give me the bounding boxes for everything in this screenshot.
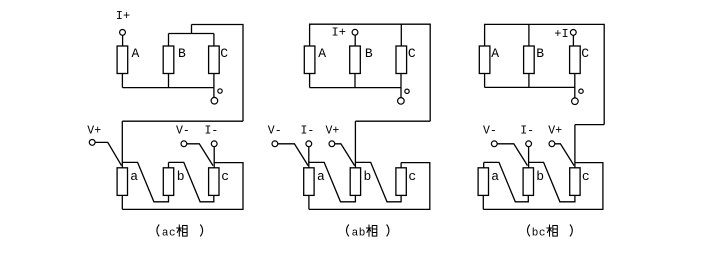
svg-text:a: a — [130, 169, 138, 184]
wire below C — [213, 74, 215, 98]
wire top bus to right drop — [192, 25, 244, 122]
terminal V- — [272, 141, 278, 147]
wire below A — [309, 74, 311, 88]
terminal small — [405, 89, 409, 93]
svg-text:I-: I- — [301, 125, 315, 138]
wire down to winding b — [354, 121, 356, 168]
caption paren — [347, 225, 349, 237]
wire below B — [354, 74, 356, 88]
caption paren — [157, 225, 159, 237]
svg-text:I+: I+ — [116, 9, 130, 23]
svg-text:V+: V+ — [326, 125, 340, 138]
terminal I+ — [352, 29, 358, 35]
wire zigzag b-c — [355, 162, 401, 201]
winding c1 — [209, 168, 219, 196]
wire B-C tie — [169, 33, 214, 35]
wire cross link — [575, 124, 604, 126]
winding c2 — [396, 168, 406, 196]
wire outer loop — [309, 163, 430, 210]
wire top bus — [310, 24, 431, 121]
svg-text:c: c — [408, 169, 416, 184]
wire a bottom stub — [482, 195, 484, 209]
svg-text:bc: bc — [532, 228, 546, 240]
winding a3 — [478, 168, 488, 196]
caption xiang — [176, 225, 187, 237]
caption xiang — [546, 225, 557, 237]
svg-text:a: a — [491, 169, 499, 184]
svg-text:c: c — [221, 169, 229, 184]
caption paren — [528, 225, 530, 237]
wire B top stub — [528, 24, 530, 46]
wire V+ lead — [555, 144, 574, 166]
terminal small — [579, 89, 583, 93]
wire C top stub — [400, 24, 402, 46]
wire I- lead — [308, 147, 310, 168]
svg-text:+I: +I — [554, 27, 568, 41]
wire below C — [574, 74, 576, 99]
svg-text:C: C — [408, 46, 416, 61]
terminal V+ — [89, 140, 95, 146]
wire zigzag a-b — [122, 162, 168, 201]
wire I+ to winding B — [354, 35, 356, 46]
svg-text:C: C — [581, 46, 589, 61]
terminal V- — [491, 141, 497, 147]
wire bottom tie — [485, 86, 575, 88]
svg-text:B: B — [365, 46, 373, 61]
winding A3 — [479, 46, 490, 74]
svg-text:V-: V- — [268, 125, 282, 138]
svg-text:ab: ab — [352, 228, 366, 240]
wire V- lead — [187, 144, 213, 166]
wire a bottom stub — [308, 195, 310, 209]
wire bottom tie — [310, 87, 401, 89]
winding B1 — [163, 46, 174, 74]
svg-text:b: b — [177, 169, 185, 184]
wire V+ lead — [95, 142, 121, 165]
wire a bottom stub — [121, 195, 123, 209]
svg-text:c: c — [582, 169, 590, 184]
winding b3 — [523, 168, 533, 196]
winding b1 — [163, 168, 173, 196]
terminal small — [218, 89, 222, 93]
winding C1 — [209, 46, 220, 74]
wire B top stub — [168, 34, 170, 47]
terminal V+ — [549, 141, 555, 147]
winding C3 — [570, 46, 581, 74]
wire +I to winding C — [572, 35, 574, 46]
wire c top stub — [400, 163, 402, 168]
terminal I- — [526, 141, 532, 147]
wire zigzag b-c — [528, 162, 575, 201]
terminal I- — [211, 141, 217, 147]
winding A1 — [117, 46, 128, 74]
terminal I- — [306, 141, 312, 147]
wire below A — [121, 74, 123, 88]
wire top bus — [485, 24, 605, 124]
winding a2 — [304, 168, 314, 196]
wire a top stub — [483, 162, 485, 167]
svg-text:V-: V- — [483, 125, 497, 138]
svg-text:I-: I- — [205, 125, 219, 138]
terminal V- — [181, 141, 187, 147]
terminal large — [211, 97, 218, 104]
wire I+ to winding A — [122, 35, 124, 46]
wire down to winding a — [121, 121, 123, 168]
wire V+ lead — [335, 144, 355, 166]
wire below B — [168, 74, 170, 88]
svg-text:I+: I+ — [332, 25, 346, 39]
winding c3 — [570, 168, 580, 196]
winding a1 — [117, 168, 127, 196]
caption paren close — [200, 225, 202, 237]
wire C top stub — [213, 34, 215, 47]
winding C2 — [396, 46, 407, 74]
terminal I+ — [120, 30, 126, 36]
wire b top stub — [168, 162, 170, 167]
caption paren close — [570, 225, 572, 237]
wire V- lead — [497, 144, 527, 166]
terminal large — [572, 98, 579, 105]
winding A2 — [304, 46, 315, 74]
wire I- lead — [213, 147, 215, 168]
terminal +I — [570, 30, 576, 36]
wire cross link — [355, 120, 430, 122]
svg-text:B: B — [178, 46, 186, 61]
wire I- lead — [528, 147, 530, 168]
winding b2 — [350, 168, 360, 196]
terminal V+ — [329, 141, 335, 147]
wire zigzag a-b — [309, 162, 356, 201]
wire zigzag a-b — [484, 162, 529, 201]
svg-text:ac: ac — [162, 228, 176, 240]
terminal large — [398, 98, 405, 105]
svg-text:V-: V- — [176, 125, 190, 138]
svg-text:V+: V+ — [548, 125, 562, 138]
wire below B — [528, 74, 530, 88]
svg-text:A: A — [318, 46, 326, 61]
wire down to winding c — [574, 125, 576, 168]
caption paren close — [387, 225, 389, 237]
svg-text:A: A — [491, 46, 499, 61]
wire zigzag b-c — [169, 162, 214, 201]
wire outer loop — [483, 163, 603, 210]
svg-text:b: b — [364, 169, 372, 184]
winding B2 — [350, 46, 361, 74]
wire outer loop — [122, 163, 243, 210]
wire below C — [400, 74, 402, 98]
svg-text:B: B — [536, 46, 544, 61]
caption xiang — [366, 225, 377, 237]
svg-text:C: C — [220, 46, 228, 61]
wire V- lead — [278, 144, 308, 166]
wire bottom tie — [122, 87, 213, 89]
svg-text:b: b — [536, 169, 544, 184]
svg-text:V+: V+ — [87, 125, 101, 138]
wire riser — [191, 25, 193, 34]
wire below A — [484, 74, 486, 88]
svg-text:A: A — [132, 46, 140, 61]
svg-text:a: a — [317, 169, 325, 184]
winding B3 — [524, 46, 535, 74]
wire cross link — [122, 120, 243, 122]
svg-text:I-: I- — [520, 125, 534, 138]
